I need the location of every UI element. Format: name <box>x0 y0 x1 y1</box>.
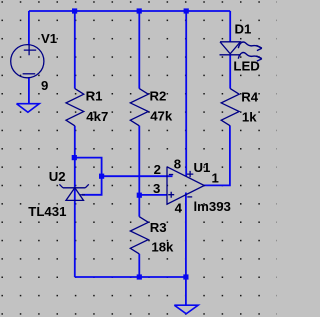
svg-text:LED: LED <box>233 59 259 74</box>
svg-text:3: 3 <box>153 181 160 196</box>
svg-text:R2: R2 <box>150 89 167 104</box>
svg-text:D1: D1 <box>235 22 252 37</box>
svg-text:R3: R3 <box>150 220 167 235</box>
svg-text:V1: V1 <box>41 31 57 46</box>
svg-text:R1: R1 <box>86 89 103 104</box>
svg-text:1k: 1k <box>242 110 257 125</box>
svg-text:9: 9 <box>41 78 48 93</box>
svg-text:18k: 18k <box>151 240 174 255</box>
svg-text:R4: R4 <box>241 90 259 105</box>
svg-text:TL431: TL431 <box>28 204 66 219</box>
svg-text:U1: U1 <box>194 160 211 175</box>
svg-text:8: 8 <box>174 156 181 171</box>
svg-text:2: 2 <box>154 162 161 177</box>
svg-text:4: 4 <box>175 201 183 216</box>
svg-text:lm393: lm393 <box>194 199 231 214</box>
svg-text:4k7: 4k7 <box>86 109 108 124</box>
svg-text:1: 1 <box>212 170 219 185</box>
svg-text:47k: 47k <box>150 108 173 123</box>
svg-text:U2: U2 <box>49 169 66 184</box>
